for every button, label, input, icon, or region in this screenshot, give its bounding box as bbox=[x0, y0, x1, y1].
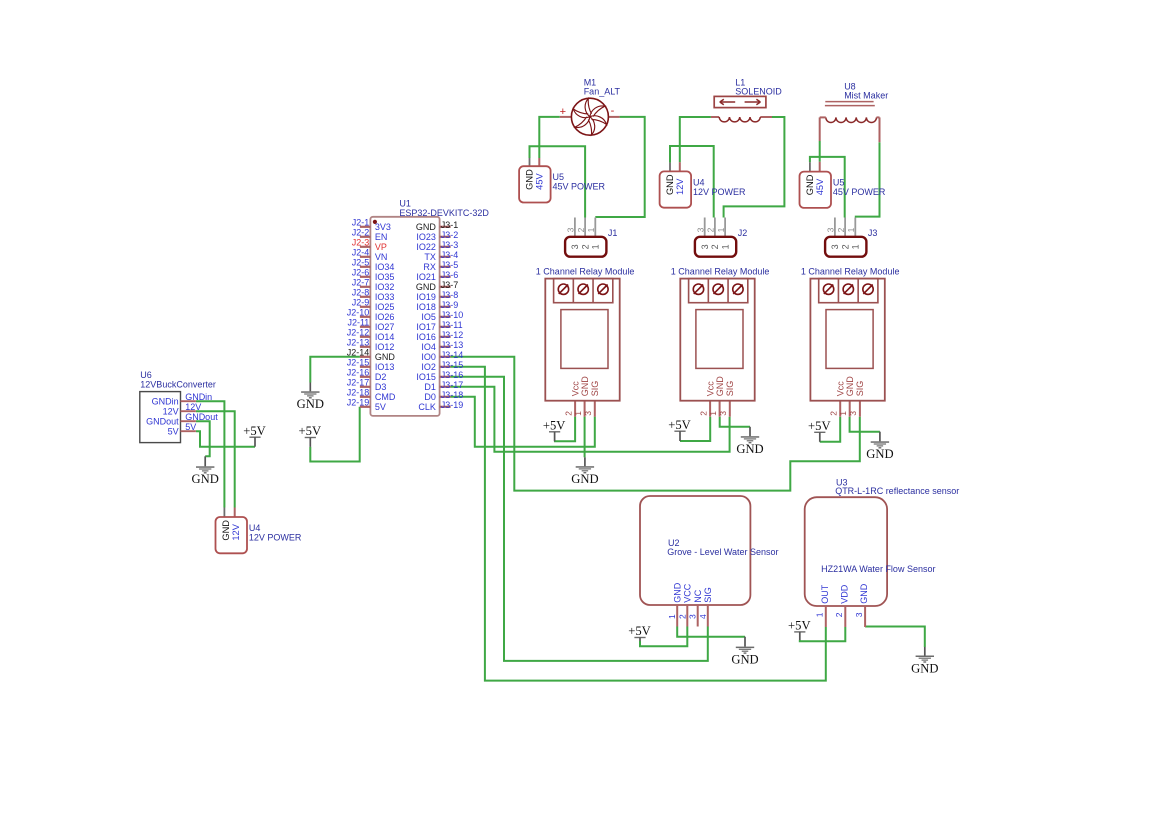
svg-text:OUT: OUT bbox=[820, 584, 830, 604]
svg-text:J2-13: J2-13 bbox=[347, 338, 370, 348]
svg-text:GND: GND bbox=[911, 661, 938, 675]
svg-text:J3-18: J3-18 bbox=[441, 390, 464, 400]
svg-text:3: 3 bbox=[826, 227, 836, 232]
svg-text:J2-8: J2-8 bbox=[352, 288, 370, 298]
svg-text:12V: 12V bbox=[675, 178, 685, 195]
svg-text:J2-17: J2-17 bbox=[347, 378, 370, 388]
svg-text:J3-15: J3-15 bbox=[441, 360, 464, 370]
svg-text:IO25: IO25 bbox=[375, 302, 395, 312]
svg-text:J3-4: J3-4 bbox=[441, 250, 459, 260]
svg-text:J2-6: J2-6 bbox=[352, 268, 370, 278]
svg-text:GND: GND bbox=[665, 174, 675, 195]
svg-text:SOLENOID: SOLENOID bbox=[735, 86, 782, 96]
svg-text:J2-19: J2-19 bbox=[347, 398, 370, 408]
svg-text:J3-7: J3-7 bbox=[441, 280, 459, 290]
svg-text:J2-1: J2-1 bbox=[352, 218, 370, 228]
svg-text:GND: GND bbox=[859, 583, 869, 604]
svg-text:J3-16: J3-16 bbox=[441, 370, 464, 380]
svg-text:IO12: IO12 bbox=[375, 342, 395, 352]
svg-text:45V POWER: 45V POWER bbox=[833, 187, 886, 197]
svg-text:3: 3 bbox=[700, 244, 710, 249]
svg-text:IO14: IO14 bbox=[375, 332, 395, 342]
svg-text:GND: GND bbox=[297, 397, 324, 411]
svg-text:D1: D1 bbox=[424, 382, 436, 392]
svg-text:45V POWER: 45V POWER bbox=[553, 182, 606, 192]
svg-text:1 Channel Relay Module: 1 Channel Relay Module bbox=[801, 267, 900, 277]
svg-text:IO19: IO19 bbox=[416, 292, 436, 302]
svg-text:2: 2 bbox=[698, 411, 708, 416]
svg-text:J2-18: J2-18 bbox=[347, 388, 370, 398]
svg-text:3V3: 3V3 bbox=[375, 222, 391, 232]
svg-text:GND: GND bbox=[416, 222, 437, 232]
svg-text:GND: GND bbox=[525, 169, 535, 190]
svg-text:J3-12: J3-12 bbox=[441, 330, 464, 340]
svg-text:Vcc: Vcc bbox=[836, 381, 846, 397]
svg-text:+: + bbox=[560, 106, 566, 118]
svg-text:45V: 45V bbox=[815, 178, 825, 195]
svg-text:2: 2 bbox=[576, 227, 586, 232]
svg-text:IO0: IO0 bbox=[421, 352, 436, 362]
svg-text:EN: EN bbox=[375, 232, 388, 242]
svg-text:+5V: +5V bbox=[299, 424, 322, 438]
svg-text:1: 1 bbox=[716, 227, 726, 232]
svg-text:IO27: IO27 bbox=[375, 322, 395, 332]
svg-text:J3-1: J3-1 bbox=[441, 220, 459, 230]
svg-text:IO17: IO17 bbox=[416, 322, 436, 332]
svg-text:VP: VP bbox=[375, 242, 387, 252]
svg-text:+5V: +5V bbox=[628, 624, 651, 638]
svg-text:J3-8: J3-8 bbox=[441, 290, 459, 300]
svg-text:TX: TX bbox=[424, 252, 436, 262]
svg-text:J3-9: J3-9 bbox=[441, 300, 459, 310]
svg-text:1: 1 bbox=[667, 614, 677, 619]
svg-text:3: 3 bbox=[854, 612, 864, 617]
svg-text:3: 3 bbox=[570, 244, 580, 249]
svg-text:J3-13: J3-13 bbox=[441, 340, 464, 350]
svg-text:Grove - Level Water Sensor: Grove - Level Water Sensor bbox=[667, 547, 778, 557]
svg-text:12V: 12V bbox=[231, 523, 241, 540]
svg-text:IO23: IO23 bbox=[416, 232, 436, 242]
svg-text:GND: GND bbox=[375, 352, 396, 362]
svg-text:D2: D2 bbox=[375, 372, 387, 382]
svg-text:VN: VN bbox=[375, 252, 388, 262]
svg-text:GND: GND bbox=[416, 282, 437, 292]
svg-text:IO15: IO15 bbox=[416, 372, 436, 382]
svg-text:J3-17: J3-17 bbox=[441, 380, 464, 390]
svg-text:2: 2 bbox=[710, 244, 720, 249]
svg-text:2: 2 bbox=[828, 411, 838, 416]
svg-text:+5V: +5V bbox=[243, 424, 266, 438]
svg-text:2: 2 bbox=[580, 244, 590, 249]
svg-text:IO13: IO13 bbox=[375, 362, 395, 372]
svg-text:J2-4: J2-4 bbox=[352, 248, 370, 258]
svg-text:VDD: VDD bbox=[839, 584, 849, 604]
svg-text:3: 3 bbox=[718, 411, 728, 416]
svg-text:3: 3 bbox=[583, 411, 593, 416]
svg-text:J3-3: J3-3 bbox=[441, 240, 459, 250]
svg-text:GNDout: GNDout bbox=[185, 412, 218, 422]
svg-text:J2-11: J2-11 bbox=[347, 318, 369, 328]
svg-text:J3-14: J3-14 bbox=[441, 350, 464, 360]
svg-text:Vcc: Vcc bbox=[570, 381, 580, 397]
svg-text:2: 2 bbox=[840, 244, 850, 249]
svg-text:NC: NC bbox=[693, 589, 703, 602]
svg-text:GND: GND bbox=[580, 376, 590, 397]
svg-text:2: 2 bbox=[677, 614, 687, 619]
svg-text:IO22: IO22 bbox=[416, 242, 436, 252]
svg-text:3: 3 bbox=[696, 227, 706, 232]
svg-text:GNDin: GNDin bbox=[185, 392, 212, 402]
svg-text:SIG: SIG bbox=[855, 381, 865, 397]
svg-text:2: 2 bbox=[706, 227, 716, 232]
svg-text:GND: GND bbox=[571, 472, 598, 486]
svg-text:IO4: IO4 bbox=[421, 342, 436, 352]
svg-text:IO26: IO26 bbox=[375, 312, 395, 322]
svg-text:J3-2: J3-2 bbox=[441, 230, 459, 240]
svg-text:SIG: SIG bbox=[703, 587, 713, 603]
svg-text:2: 2 bbox=[563, 411, 573, 416]
svg-text:J2-7: J2-7 bbox=[352, 278, 370, 288]
svg-text:J2-9: J2-9 bbox=[352, 298, 370, 308]
svg-text:CLK: CLK bbox=[418, 402, 436, 412]
svg-text:5V: 5V bbox=[168, 427, 179, 437]
svg-text:GND: GND bbox=[221, 520, 231, 541]
svg-text:GND: GND bbox=[715, 376, 725, 397]
svg-text:12VBuckConverter: 12VBuckConverter bbox=[140, 379, 216, 389]
svg-text:J2-15: J2-15 bbox=[347, 358, 370, 368]
svg-text:+5V: +5V bbox=[668, 418, 691, 432]
svg-text:J3-10: J3-10 bbox=[441, 310, 464, 320]
svg-text:1 Channel Relay Module: 1 Channel Relay Module bbox=[536, 267, 635, 277]
svg-text:1: 1 bbox=[851, 244, 861, 249]
svg-text:3: 3 bbox=[688, 614, 698, 619]
svg-text:+5V: +5V bbox=[808, 419, 831, 433]
svg-text:IO21: IO21 bbox=[416, 272, 436, 282]
svg-text:SIG: SIG bbox=[725, 381, 735, 397]
svg-text:QTR-L-1RC reflectance sensor: QTR-L-1RC reflectance sensor bbox=[835, 486, 959, 496]
svg-text:GND: GND bbox=[192, 472, 219, 486]
svg-text:GND: GND bbox=[673, 582, 683, 603]
svg-text:1: 1 bbox=[586, 227, 596, 232]
svg-text:J3-11: J3-11 bbox=[441, 320, 463, 330]
svg-text:4: 4 bbox=[698, 614, 708, 619]
svg-text:+5V: +5V bbox=[788, 619, 811, 633]
svg-text:J2-2: J2-2 bbox=[352, 228, 370, 238]
svg-text:1 Channel Relay Module: 1 Channel Relay Module bbox=[671, 267, 770, 277]
svg-text:IO34: IO34 bbox=[375, 262, 395, 272]
svg-text:-: - bbox=[611, 105, 615, 117]
svg-text:2: 2 bbox=[836, 227, 846, 232]
svg-text:+5V: +5V bbox=[543, 419, 566, 433]
svg-text:45V: 45V bbox=[535, 173, 545, 190]
svg-text:1: 1 bbox=[838, 411, 848, 416]
svg-text:GND: GND bbox=[805, 174, 815, 195]
svg-text:Mist Maker: Mist Maker bbox=[844, 91, 888, 101]
svg-text:RX: RX bbox=[423, 262, 436, 272]
svg-text:Vcc: Vcc bbox=[705, 381, 715, 397]
svg-text:J3-5: J3-5 bbox=[441, 260, 459, 270]
svg-text:1: 1 bbox=[720, 244, 730, 249]
svg-text:J2-16: J2-16 bbox=[347, 368, 370, 378]
svg-text:12V POWER: 12V POWER bbox=[249, 532, 302, 542]
svg-text:GND: GND bbox=[845, 376, 855, 397]
svg-text:5V: 5V bbox=[375, 402, 386, 412]
svg-text:IO16: IO16 bbox=[416, 332, 436, 342]
svg-text:J2-5: J2-5 bbox=[352, 258, 370, 268]
svg-text:GND: GND bbox=[866, 447, 893, 461]
svg-text:J2-12: J2-12 bbox=[347, 328, 370, 338]
svg-text:HZ21WA Water Flow Sensor: HZ21WA Water Flow Sensor bbox=[821, 564, 935, 574]
svg-text:CMD: CMD bbox=[375, 392, 396, 402]
svg-text:2: 2 bbox=[834, 612, 844, 617]
svg-text:1: 1 bbox=[846, 227, 856, 232]
svg-text:3: 3 bbox=[848, 411, 858, 416]
svg-text:1: 1 bbox=[815, 612, 825, 617]
svg-text:3: 3 bbox=[830, 244, 840, 249]
svg-text:12V: 12V bbox=[163, 407, 179, 417]
svg-text:GND: GND bbox=[736, 442, 763, 456]
svg-text:Fan_ALT: Fan_ALT bbox=[584, 87, 621, 97]
svg-text:J3-19: J3-19 bbox=[441, 400, 464, 410]
svg-text:J3-6: J3-6 bbox=[441, 270, 459, 280]
svg-text:12V POWER: 12V POWER bbox=[693, 187, 746, 197]
svg-text:J1: J1 bbox=[608, 228, 618, 238]
svg-text:IO32: IO32 bbox=[375, 282, 395, 292]
svg-text:D0: D0 bbox=[424, 392, 436, 402]
svg-text:IO18: IO18 bbox=[416, 302, 436, 312]
svg-text:1: 1 bbox=[708, 411, 718, 416]
svg-text:GNDin: GNDin bbox=[152, 397, 179, 407]
svg-text:D3: D3 bbox=[375, 382, 387, 392]
svg-text:ESP32-DEVKITC-32D: ESP32-DEVKITC-32D bbox=[399, 208, 489, 218]
svg-text:VCC: VCC bbox=[683, 583, 693, 603]
svg-text:J2-10: J2-10 bbox=[347, 308, 370, 318]
svg-text:J3: J3 bbox=[868, 228, 878, 238]
svg-text:IO2: IO2 bbox=[421, 362, 436, 372]
svg-text:3: 3 bbox=[566, 227, 576, 232]
svg-text:IO35: IO35 bbox=[375, 272, 395, 282]
svg-text:GND: GND bbox=[731, 652, 758, 666]
svg-text:GNDout: GNDout bbox=[146, 417, 179, 427]
svg-text:J2-3: J2-3 bbox=[352, 238, 370, 248]
svg-text:IO33: IO33 bbox=[375, 292, 395, 302]
svg-text:J2-14: J2-14 bbox=[347, 348, 370, 358]
svg-text:12V: 12V bbox=[185, 402, 201, 412]
svg-text:5V: 5V bbox=[185, 422, 196, 432]
svg-text:J2: J2 bbox=[738, 228, 748, 238]
svg-text:1: 1 bbox=[591, 244, 601, 249]
svg-text:IO5: IO5 bbox=[421, 312, 436, 322]
svg-text:1: 1 bbox=[573, 411, 583, 416]
svg-text:SIG: SIG bbox=[590, 381, 600, 397]
